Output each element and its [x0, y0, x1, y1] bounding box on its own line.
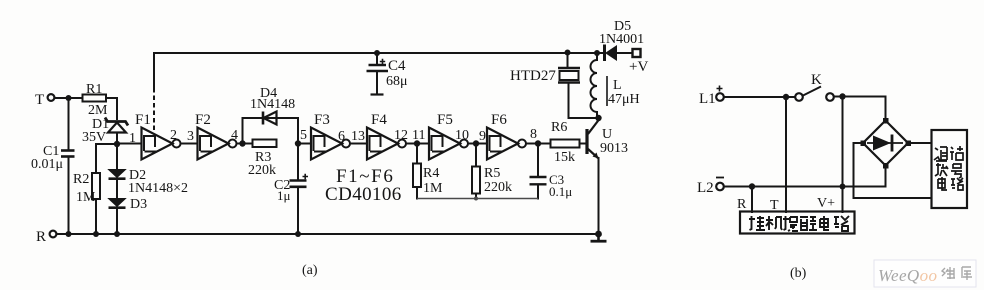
char 库	[962, 267, 972, 280]
svg-text:5: 5	[300, 128, 307, 143]
char 拨	[935, 163, 948, 176]
timing net wire R4-R5-C3	[417, 198, 538, 200]
wire node5 to F3	[298, 143, 311, 145]
wire R1 to D1	[106, 98, 117, 119]
terminal L2	[697, 178, 724, 197]
wire D3 to bottom rail	[116, 208, 118, 234]
char 提	[783, 216, 798, 231]
svg-text:V+: V+	[817, 196, 835, 211]
node 8 junction	[535, 140, 541, 146]
svg-text:(a): (a)	[302, 263, 318, 278]
svg-text:35V: 35V	[82, 130, 106, 145]
char 醒	[800, 217, 817, 230]
wire R down	[751, 187, 753, 213]
svg-text:47μH: 47μH	[608, 92, 640, 107]
resistor R5	[472, 144, 512, 199]
svg-text:0.1μ: 0.1μ	[549, 184, 572, 199]
wire D2 to D3	[116, 179, 118, 199]
svg-text:12: 12	[394, 128, 408, 143]
wire node1 down to D2	[116, 144, 118, 170]
schmitt inverter F3	[311, 112, 350, 160]
wire bridge left to lower box input	[854, 143, 932, 198]
node 4 junction	[239, 140, 245, 146]
resistor R6	[551, 120, 580, 165]
wire R6 to base	[580, 143, 586, 145]
capacitor C1	[31, 144, 75, 172]
junction dots bottom rail	[66, 231, 72, 237]
svg-text:L1: L1	[699, 91, 716, 107]
svg-text:(b): (b)	[790, 266, 807, 281]
node V+ crossing	[840, 184, 846, 190]
emitter junction dot	[595, 231, 602, 238]
ground	[591, 234, 607, 243]
wire F4 to F5	[406, 143, 429, 145]
char 挂	[749, 216, 765, 230]
node T branch	[783, 94, 789, 100]
label F1~F6 CD40106	[325, 166, 402, 205]
top feedback rail	[154, 53, 597, 88]
char 电 (2)	[820, 216, 829, 230]
diode D3	[109, 197, 148, 212]
svg-text:0.01μ: 0.01μ	[31, 157, 63, 172]
node 5 junction	[295, 140, 301, 146]
svg-text:C4: C4	[388, 58, 406, 74]
svg-text:R: R	[36, 229, 46, 245]
char 电	[938, 177, 947, 190]
svg-text:CD40106: CD40106	[325, 184, 402, 205]
char 维	[942, 267, 955, 279]
box: on-hook reminder circuit 挂机提醒电路	[740, 212, 855, 234]
wire L2 to bridge bottom	[724, 166, 886, 187]
schmitt inverter F4	[367, 112, 406, 160]
capacitor C3	[530, 144, 573, 200]
svg-text:R2: R2	[73, 172, 89, 187]
resistor R4	[413, 144, 443, 199]
capacitor C2	[274, 144, 308, 235]
svg-text:1μ: 1μ	[277, 188, 291, 203]
watermark	[874, 260, 976, 287]
svg-text:K: K	[811, 72, 822, 88]
svg-text:11: 11	[412, 128, 425, 143]
box: dial circuit 通话拨号电路	[932, 130, 968, 208]
char 路 (2)	[834, 216, 849, 231]
node V+ branch	[839, 93, 845, 99]
collector junction	[595, 115, 601, 121]
svg-text:F1: F1	[135, 112, 151, 128]
wire F3 to F4	[350, 143, 367, 145]
diode D5	[597, 19, 644, 61]
schmitt inverter F6	[487, 112, 526, 160]
svg-text:F2: F2	[195, 112, 211, 128]
svg-text:3: 3	[187, 129, 194, 144]
svg-text:15k: 15k	[554, 150, 575, 165]
svg-text:1: 1	[129, 131, 136, 146]
schmitt inverter F1	[135, 112, 181, 160]
svg-text:F6: F6	[491, 112, 507, 128]
switch K	[795, 72, 834, 101]
wire bridge right to box	[908, 142, 932, 144]
svg-text:9: 9	[479, 129, 486, 144]
wire F2 out through R3 to node5	[237, 143, 253, 145]
node R branch	[749, 183, 755, 189]
svg-text:F3: F3	[314, 112, 330, 128]
dashed drop to F1	[153, 88, 155, 133]
svg-text:13: 13	[351, 129, 365, 144]
wire C1 to bottom rail	[68, 158, 70, 235]
svg-text:1N4148×2: 1N4148×2	[128, 181, 188, 196]
char 路	[951, 178, 963, 190]
char 机	[766, 216, 782, 230]
svg-text:T: T	[35, 92, 44, 108]
svg-text:U: U	[602, 127, 612, 142]
bridge rectifier	[861, 118, 912, 169]
wire F5 to F6	[468, 143, 487, 145]
wire T to R1	[55, 97, 83, 99]
wire F6 out to R6	[526, 143, 551, 145]
char 话	[950, 146, 963, 160]
schmitt inverter F5	[429, 112, 468, 160]
svg-text:F4: F4	[371, 112, 387, 128]
diode D2	[109, 168, 189, 196]
svg-text:D3: D3	[130, 197, 147, 212]
svg-text:L2: L2	[697, 180, 714, 196]
schmitt inverter F2	[195, 112, 237, 160]
resistor R1	[83, 82, 109, 118]
svg-text:9013: 9013	[600, 141, 628, 156]
terminal +V	[629, 49, 648, 75]
wire T down	[785, 97, 787, 212]
wire node1 to R2 top	[96, 144, 117, 173]
svg-text:+V: +V	[629, 59, 648, 75]
char 通	[934, 147, 947, 161]
terminal R	[36, 229, 56, 245]
svg-text:6: 6	[338, 129, 345, 144]
svg-text:68μ: 68μ	[386, 74, 408, 89]
transistor U 9013	[587, 120, 628, 159]
D4 bypass branch	[243, 118, 299, 144]
svg-text:1N4148: 1N4148	[250, 97, 295, 112]
wire C1 branch upper	[68, 98, 70, 150]
svg-text:10: 10	[455, 128, 469, 143]
char 号	[951, 164, 962, 178]
node T/C1 junction	[66, 95, 72, 101]
svg-text:L: L	[613, 78, 622, 93]
svg-text:F5: F5	[437, 112, 453, 128]
svg-text:R6: R6	[551, 120, 567, 135]
resistor R3	[248, 140, 277, 179]
wire F1 out to F2 in	[181, 143, 198, 145]
terminal L1	[699, 86, 724, 108]
svg-text:R: R	[737, 197, 747, 212]
svg-text:220k: 220k	[484, 180, 512, 195]
svg-text:2M: 2M	[88, 103, 108, 118]
svg-text:220k: 220k	[248, 163, 276, 178]
svg-text:1M: 1M	[423, 181, 443, 196]
resistor R2	[73, 172, 100, 234]
wire switch to bridge top	[834, 97, 886, 121]
node 9 junction	[473, 140, 479, 146]
svg-text:2: 2	[170, 128, 177, 143]
wire V+ down	[842, 97, 844, 213]
svg-text:8: 8	[530, 127, 537, 142]
wire node1 to F1 input	[117, 143, 142, 145]
node 1 junction	[114, 141, 120, 147]
node 11 junction	[414, 140, 420, 146]
inductor L	[591, 50, 640, 118]
zener D1	[82, 117, 128, 145]
svg-text:R4: R4	[423, 166, 439, 181]
svg-text:4: 4	[231, 128, 238, 143]
bottom rail	[57, 233, 600, 235]
terminal T	[35, 92, 54, 108]
wire emitter to ground rail	[598, 158, 600, 234]
wire L1 to switch	[724, 96, 795, 98]
svg-text:1M: 1M	[76, 190, 96, 205]
capacitor C4	[367, 50, 408, 95]
svg-text:HTD27: HTD27	[510, 68, 556, 84]
svg-text:WeeQoo: WeeQoo	[878, 266, 937, 285]
svg-text:R5: R5	[484, 166, 500, 181]
diode D4	[250, 86, 295, 125]
buzzer HTD27	[510, 50, 596, 119]
